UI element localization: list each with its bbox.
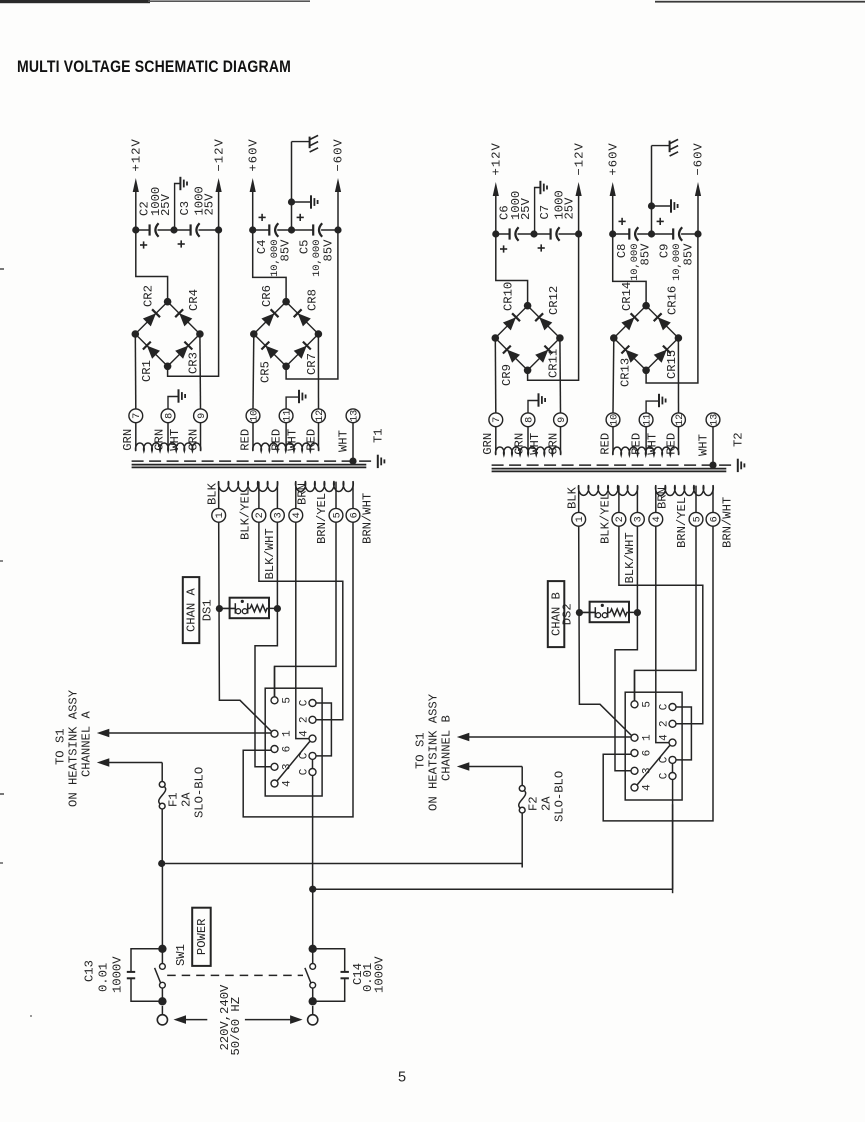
selector pin C right T2 half [658, 703, 676, 710]
junction wire3/DS1 [274, 605, 281, 612]
wire tap4 to pin4 [656, 526, 669, 742]
svg-text:CR3: CR3 [187, 352, 201, 374]
svg-text:RED: RED [664, 433, 678, 455]
label BLK [565, 486, 579, 509]
svg-text:C9: C9 [658, 244, 672, 259]
svg-text:8: 8 [164, 413, 175, 419]
tap 1 T2 [572, 486, 586, 527]
svg-text:CHANNEL B: CHANNEL B [440, 715, 454, 781]
svg-text:85V: 85V [279, 239, 293, 262]
wire bridge2 + output [253, 230, 286, 302]
core T1 [132, 461, 374, 467]
capacitor C8 [609, 218, 652, 281]
svg-text:DS2: DS2 [560, 603, 574, 625]
wire terminal 13 lead [352, 423, 354, 461]
terminal 9 T1 [194, 409, 208, 423]
wire terminal lead [612, 427, 614, 455]
svg-text:CR13: CR13 [619, 358, 633, 387]
svg-text:C4: C4 [255, 240, 269, 255]
terminal 8 T2 [521, 413, 535, 427]
label 220V,240V [218, 984, 232, 1051]
voltage selector block T2 half [625, 692, 682, 800]
wire bridge1 ac right [199, 334, 202, 409]
svg-text:ON HEATSINK ASSY: ON HEATSINK ASSY [67, 689, 81, 807]
label TO S1 T1 half [53, 728, 67, 765]
label CHAN A [183, 577, 200, 643]
svg-text:WHT: WHT [168, 429, 182, 451]
node -12V output T2 half [572, 142, 586, 237]
selector pin 1 left T2 half [631, 734, 654, 741]
svg-text:BLK/WHT: BLK/WHT [623, 532, 637, 583]
svg-text:25V: 25V [563, 197, 577, 220]
tap 3 T1 [271, 482, 285, 523]
primary winding 1 T2 [578, 485, 637, 495]
diode CR12 [535, 286, 561, 331]
svg-text:2: 2 [255, 512, 266, 518]
wire bridge1 ac left [494, 338, 497, 413]
wire terminal lead [135, 423, 137, 451]
wire bridge1 - output [528, 234, 579, 380]
svg-text:25V: 25V [519, 197, 533, 220]
AC terminal left [157, 1006, 167, 1025]
svg-text:5: 5 [282, 697, 294, 704]
svg-text:2A: 2A [540, 796, 554, 811]
svg-text:BRN/YEL: BRN/YEL [315, 493, 329, 544]
svg-text:4: 4 [652, 516, 663, 522]
wire tap4 to pin4 [296, 522, 309, 738]
svg-text:GRN: GRN [481, 433, 495, 455]
svg-text:85V: 85V [322, 239, 336, 262]
terminal 12 T1 [312, 409, 326, 423]
terminal 8 T1 [161, 409, 175, 423]
svg-text:GRN: GRN [547, 433, 561, 455]
svg-text:C5: C5 [298, 240, 312, 255]
capacitor C9 [652, 218, 699, 281]
label BLK/YEL [598, 493, 612, 544]
svg-text:2: 2 [615, 516, 626, 522]
svg-text:TO S1: TO S1 [413, 732, 427, 769]
svg-text:CHAN A: CHAN A [185, 587, 199, 632]
svg-text:C: C [658, 703, 670, 710]
svg-text:BRN/WHT: BRN/WHT [361, 493, 375, 544]
terminal 7 T2 [489, 413, 503, 427]
selector pin 4 left T2 half [631, 784, 654, 791]
secondary winding RED T2 [613, 447, 679, 455]
ground at T2 core [709, 459, 744, 472]
wire selector common down T1 half [312, 776, 314, 890]
svg-text:13: 13 [349, 410, 360, 422]
wire terminal lead [200, 423, 202, 451]
tap 5 T2 [689, 486, 703, 527]
arrow to S1 CHANNEL B [457, 733, 631, 742]
arrow AC right [245, 1015, 303, 1024]
label DS2 [560, 603, 574, 625]
label GRN t9 [547, 433, 561, 455]
selector pin 6 left T1 half [271, 746, 294, 753]
label GRN t7 [121, 429, 135, 451]
svg-text:25V: 25V [159, 193, 173, 216]
svg-text:5: 5 [332, 512, 343, 518]
selector loop C to C T1 half [316, 703, 331, 756]
svg-text:BRN/WHT: BRN/WHT [721, 497, 735, 548]
selector pin 4 right T1 half [298, 730, 316, 742]
node +12V output T1 half [130, 138, 144, 230]
svg-text:BRN/YEL: BRN/YEL [675, 497, 689, 548]
svg-text:RED: RED [304, 429, 318, 451]
svg-text:3: 3 [634, 516, 645, 522]
terminal 13 T1 [346, 409, 360, 423]
svg-text:BRN: BRN [296, 483, 310, 505]
label RED/WHT t11 [270, 429, 300, 451]
svg-text:CHANNEL A: CHANNEL A [80, 710, 94, 777]
primary winding 2 T2 [656, 485, 714, 496]
svg-text:CR11: CR11 [547, 349, 561, 378]
node -12V output T1 half [212, 138, 226, 233]
capacitor C13 [83, 949, 163, 1002]
svg-text:CR7: CR7 [305, 353, 319, 375]
diode CR10 [502, 282, 520, 331]
secondary winding RED T1 [253, 443, 319, 451]
svg-text:CR15: CR15 [665, 350, 679, 379]
selector link C-C T1 half [312, 759, 314, 768]
node +60V output T2 half [606, 142, 620, 234]
wire bridge1 ac right [559, 338, 562, 413]
label ON HEATSINK ASSY T1 half [67, 689, 81, 807]
svg-text:9: 9 [197, 413, 208, 419]
earth ground above C4/C5 junction [288, 135, 318, 233]
secondary winding GRN T2 [495, 447, 560, 455]
svg-text:CR8: CR8 [306, 289, 320, 311]
junction wire1/DS1 [216, 605, 223, 612]
label BLK/WHT [623, 532, 637, 583]
svg-text:−12V: −12V [212, 138, 226, 171]
ground at terminal 11 [286, 390, 306, 409]
svg-text:6: 6 [709, 516, 720, 522]
ground at C2/C3 junction [170, 177, 187, 234]
svg-text:4: 4 [282, 780, 294, 787]
label T2 [732, 432, 746, 447]
diode CR6 [260, 285, 278, 326]
terminal 12 T2 [672, 413, 686, 427]
diode CR5 [259, 342, 279, 383]
wire terminal lead [560, 427, 562, 455]
tap 6 T1 [346, 482, 360, 523]
svg-text:CR4: CR4 [187, 289, 201, 311]
terminal 10 T1 [246, 409, 260, 423]
primary winding 2 T1 [296, 481, 354, 492]
bridge frame CR14-CR15 [610, 302, 682, 374]
label BLK/WHT [263, 528, 277, 579]
switch SW1 pole B [305, 889, 317, 1005]
svg-text:GRN: GRN [187, 429, 201, 451]
fuse F1 [159, 763, 207, 864]
arrow to S1 fuse T1 half [97, 758, 162, 767]
tap 4 T1 [289, 482, 303, 523]
svg-text:RED: RED [599, 433, 613, 455]
svg-text:85V: 85V [639, 243, 653, 266]
svg-text:+12V: +12V [130, 138, 144, 171]
tap 1 T1 [212, 482, 226, 523]
svg-text:+60V: +60V [246, 138, 260, 171]
svg-text:T2: T2 [732, 432, 746, 447]
arrow to S1 CHANNEL A [97, 729, 271, 738]
label BRN/YEL [315, 493, 329, 544]
wire pin5 up [634, 670, 636, 700]
label RED t10 [239, 429, 253, 451]
diode CR1 [140, 342, 160, 382]
svg-text:WHT: WHT [696, 434, 710, 456]
label RED/WHT t11 [630, 433, 660, 455]
bus line 2 [309, 804, 672, 893]
svg-text:WHT: WHT [336, 430, 350, 452]
wire bridge2 ac right [317, 334, 319, 409]
wire terminal lead [285, 423, 287, 451]
wire terminal lead [252, 423, 254, 451]
svg-text:4: 4 [298, 730, 310, 737]
capacitor C7 [534, 190, 579, 251]
node -60V output T1 half [332, 138, 346, 233]
primary winding 1 T1 [218, 481, 277, 491]
capacitor C3 [174, 186, 219, 247]
diode CR7 [294, 342, 319, 375]
wire bridge2 - output [646, 234, 698, 383]
svg-text:1: 1 [215, 512, 226, 518]
wire tap6 to pin6 [243, 522, 353, 817]
capacitor C14 [313, 949, 387, 1002]
selector pin 4 left T1 half [271, 780, 294, 787]
label SW1 [174, 944, 188, 966]
svg-text:CR12: CR12 [547, 286, 561, 315]
label CHANNEL A [80, 710, 94, 777]
svg-text:−60V: −60V [692, 142, 706, 175]
svg-text:CR9: CR9 [500, 364, 514, 386]
selector link C-C T2 half [672, 763, 674, 772]
svg-text:CR16: CR16 [666, 286, 680, 315]
wire tap3 to pin3 [615, 526, 637, 771]
node -60V output T2 half [692, 142, 706, 237]
svg-text:T1: T1 [372, 428, 386, 443]
label 50/60 HZ [229, 997, 243, 1056]
bus line 1 [158, 860, 522, 868]
svg-text:12: 12 [315, 410, 326, 422]
svg-text:MULTI VOLTAGE SCHEMATIC DIAGRA: MULTI VOLTAGE SCHEMATIC DIAGRAM [17, 57, 291, 76]
wire bridge1 - output [168, 230, 219, 376]
capacitor C6 [492, 191, 534, 253]
wire terminal lead [678, 427, 680, 455]
secondary winding GRN T1 [135, 443, 200, 451]
capacitor C5 [292, 214, 339, 277]
svg-text:DS1: DS1 [200, 599, 214, 621]
selector pin 3 left T1 half [271, 763, 294, 770]
svg-text:2: 2 [298, 716, 310, 723]
svg-text:25V: 25V [203, 193, 217, 216]
selector pin 1 left T1 half [271, 730, 294, 737]
svg-text:1: 1 [575, 516, 586, 522]
svg-text:BLK: BLK [565, 486, 579, 509]
diode CR13 [619, 346, 639, 387]
svg-text:BLK: BLK [205, 482, 219, 505]
AC terminal right [308, 1006, 318, 1025]
svg-text:50/60 HZ: 50/60 HZ [229, 997, 243, 1056]
svg-text:4: 4 [292, 512, 303, 518]
svg-text:6: 6 [349, 512, 360, 518]
wire terminal 13 lead [712, 427, 714, 465]
diode CR3 [175, 342, 200, 374]
wire tap5 to pin5 [275, 522, 337, 697]
svg-text:RED: RED [239, 429, 253, 451]
svg-text:C3: C3 [178, 201, 192, 216]
label GRN/WHT t8 [512, 433, 542, 455]
selector pin 6 left T2 half [631, 750, 654, 757]
svg-text:−60V: −60V [332, 138, 346, 171]
tap 2 T2 [612, 486, 626, 527]
wire bridge2 ac left [252, 334, 255, 409]
label BRN/WHT [361, 493, 375, 544]
svg-text:−12V: −12V [572, 142, 586, 175]
label BRN [656, 487, 670, 509]
tap 2 T1 [252, 482, 266, 523]
node +12V output T2 half [490, 142, 504, 234]
svg-text:4: 4 [658, 734, 670, 741]
label RED t12 [304, 429, 318, 451]
svg-text:CR6: CR6 [260, 285, 274, 307]
diode CR4 [175, 289, 201, 326]
label BRN [296, 483, 310, 505]
svg-text:WHT: WHT [528, 433, 542, 455]
svg-text:11: 11 [642, 414, 653, 426]
svg-text:6: 6 [282, 746, 294, 753]
bridge frame CR2-CR3 [132, 298, 204, 370]
wire terminal lead [527, 427, 529, 455]
svg-text:CR5: CR5 [259, 361, 273, 383]
svg-text:12: 12 [675, 414, 686, 426]
wire bridge2 ac right [677, 338, 679, 413]
terminal 13 T2 [706, 413, 720, 427]
arrow AC left [174, 1015, 208, 1024]
svg-text:SLO-BLO: SLO-BLO [553, 771, 567, 822]
svg-text:C: C [298, 768, 310, 775]
svg-text:10: 10 [249, 410, 260, 422]
svg-text:10: 10 [609, 414, 620, 426]
wire bridge1 + output [136, 230, 168, 302]
switch SW1 mechanical link [167, 974, 303, 976]
bridge frame CR10-CR11 [492, 302, 564, 374]
svg-text:CR10: CR10 [502, 282, 516, 311]
ground at terminal 11 [646, 394, 666, 413]
svg-text:8: 8 [524, 417, 535, 423]
svg-text:7: 7 [132, 413, 143, 419]
wire pin5 up [274, 666, 276, 696]
label WHT t13 [696, 434, 710, 456]
svg-text:C: C [658, 772, 670, 779]
selector pin 4 right T2 half [658, 734, 676, 746]
svg-text:F2: F2 [527, 796, 541, 811]
svg-text:SLO-BLO: SLO-BLO [193, 767, 207, 818]
diode CR11 [535, 346, 560, 378]
selector pin C right T2 half [658, 772, 676, 779]
label CHANNEL B [440, 715, 454, 781]
selector pin C right T1 half [298, 699, 316, 706]
svg-text:C13: C13 [83, 960, 97, 982]
node +60V output T1 half [246, 138, 260, 230]
selector blade T2 half [637, 746, 669, 785]
arrow to S1 fuse T2 half [457, 762, 522, 771]
selector loop C to C T2 half [676, 707, 691, 760]
svg-text:C: C [298, 699, 310, 706]
wire terminal lead [167, 423, 169, 451]
capacitor C2 [132, 187, 174, 249]
core T2 [492, 465, 734, 471]
svg-text:GRN: GRN [121, 429, 135, 451]
svg-text:6: 6 [642, 750, 654, 757]
svg-text:9: 9 [557, 417, 568, 423]
tap 4 T2 [649, 486, 663, 527]
svg-text:TO S1: TO S1 [53, 728, 67, 765]
label BLK/YEL [238, 489, 252, 540]
label RED t12 [664, 433, 678, 455]
junction wire3/DS2 [634, 609, 641, 616]
selector pin 5 left T1 half [271, 697, 294, 704]
svg-text:1: 1 [282, 730, 294, 737]
terminal 11 T1 [279, 409, 293, 423]
label GRN t9 [187, 429, 201, 451]
svg-text:POWER: POWER [195, 919, 209, 956]
tap 5 T1 [329, 482, 343, 523]
selector pin 5 left T2 half [631, 701, 654, 708]
svg-text:85V: 85V [682, 243, 696, 266]
fuse F2 [519, 767, 567, 868]
page top edge artifact [0, 0, 865, 3]
label T1 [372, 428, 386, 443]
title [17, 57, 291, 76]
svg-text:WHT: WHT [285, 429, 299, 451]
selector pin 2 right T1 half [298, 716, 316, 723]
label GRN t7 [481, 433, 495, 455]
selector blade T1 half [277, 742, 309, 781]
wire tap5 to pin5 [635, 526, 697, 701]
tap 3 T2 [631, 486, 645, 527]
svg-text:SW1: SW1 [174, 944, 188, 966]
svg-text:2: 2 [658, 720, 670, 727]
svg-text:11: 11 [282, 410, 293, 422]
svg-text:3: 3 [274, 512, 285, 518]
voltage selector block T1 half [265, 688, 322, 796]
label BRN/YEL [675, 497, 689, 548]
selector pin C right T2 half [658, 756, 676, 763]
wire tap2 to pin2 [259, 522, 343, 720]
label BLK [205, 482, 219, 505]
svg-text:WHT: WHT [645, 433, 659, 455]
ground at T1 core [349, 455, 384, 468]
neon lamp DS1 [219, 598, 277, 619]
ground at terminal 8 [528, 393, 545, 413]
wire tap1 to pin1 [219, 522, 272, 731]
svg-text:C7: C7 [538, 205, 552, 220]
wire tap3 to pin3 [255, 522, 277, 767]
wire selector common down T2 half [672, 780, 674, 894]
wire bridge2 - output [286, 230, 338, 379]
wire tap2 to pin2 [619, 526, 703, 724]
svg-text:7: 7 [492, 417, 503, 423]
diode CR14 [620, 282, 638, 331]
neon lamp DS2 [579, 602, 637, 623]
wire terminal lead [645, 427, 647, 455]
svg-text:BLK/YEL: BLK/YEL [238, 489, 252, 540]
svg-text:F1: F1 [167, 792, 181, 807]
switch SW1 pole A [155, 864, 167, 1006]
label GRN/WHT t8 [152, 429, 182, 451]
svg-text:5: 5 [642, 701, 654, 708]
